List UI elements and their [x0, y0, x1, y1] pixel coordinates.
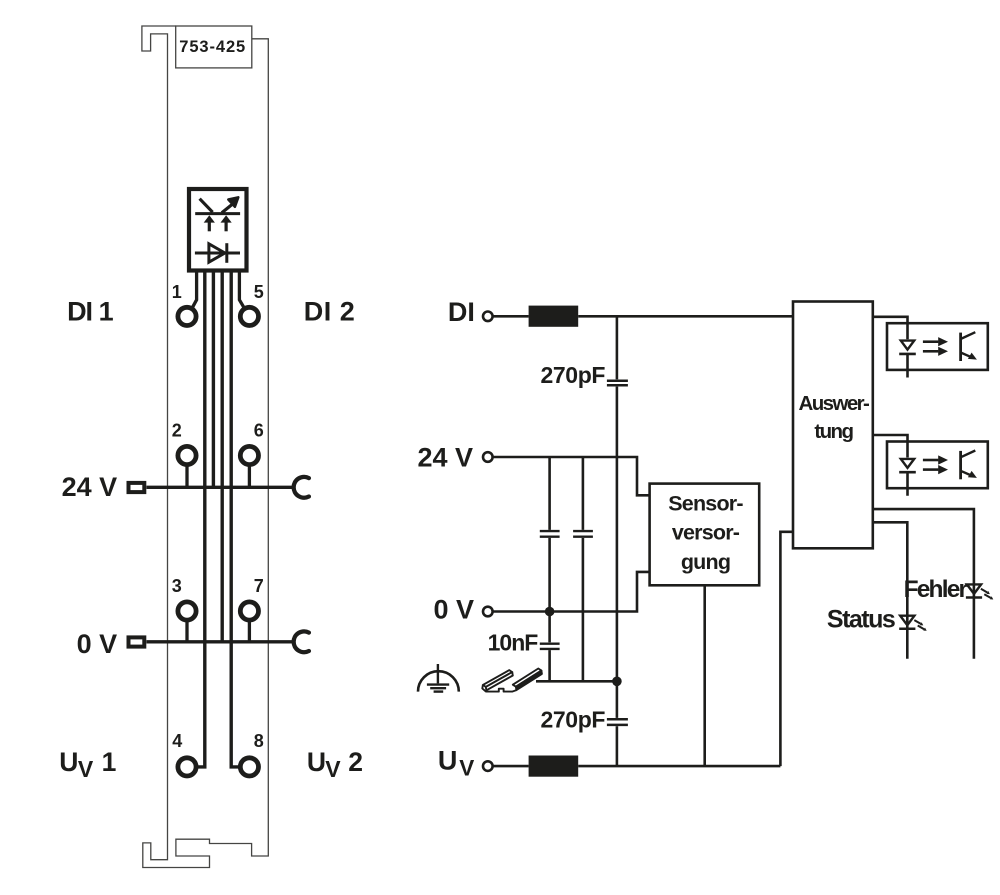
- svg-text:3: 3: [172, 576, 182, 596]
- bus wire to contact 4: [196, 271, 205, 767]
- LED Status light arrows: [914, 620, 924, 629]
- capacitor C2 plate 2: [540, 536, 560, 538]
- status indicator diagonal: [200, 199, 213, 213]
- wire 10nF to ground line: [548, 650, 551, 681]
- LED Fehler light arrows: [981, 589, 991, 598]
- opto 2 LED cathode bar: [899, 471, 916, 474]
- diode triangle: [209, 244, 225, 262]
- wire Auswertung to opto 2: [873, 435, 908, 442]
- pin wire to contact 5: [239, 271, 244, 308]
- wire ground node down to UV line: [616, 681, 619, 718]
- up arrow 1 shaft: [208, 221, 211, 232]
- opto 1 LED cathode bar: [899, 353, 916, 356]
- 24V rail wire: [147, 486, 294, 489]
- svg-text:270pF: 270pF: [541, 706, 606, 732]
- svg-text:versor-: versor-: [672, 521, 740, 545]
- LED Status triangle: [900, 616, 914, 626]
- contact circle 7: [240, 602, 258, 620]
- wire Sensor box down to UV line: [703, 585, 706, 766]
- terminal UV: [483, 761, 493, 771]
- earth symbol bar 2: [430, 687, 446, 689]
- stem contact 7: [248, 617, 251, 642]
- ground wire: [536, 680, 617, 683]
- svg-text:270pF: 270pF: [541, 362, 606, 388]
- svg-text:V: V: [78, 756, 94, 782]
- svg-text:DI: DI: [448, 297, 475, 327]
- svg-text:1: 1: [172, 282, 182, 302]
- wire DI to Auswertung: [578, 315, 793, 318]
- 0V rail wire: [147, 640, 294, 643]
- module outline 753-425 housing: [142, 26, 268, 868]
- 0V spring contact: [294, 631, 309, 652]
- label box: [176, 26, 252, 68]
- Auswertung box: [793, 302, 873, 549]
- wire 0V to Sensor corner: [494, 572, 650, 612]
- capacitor branch 1 upper wire: [548, 457, 551, 530]
- svg-text:Auswer-: Auswer-: [799, 392, 869, 415]
- contact circle 1: [178, 307, 196, 325]
- svg-text:DI 2: DI 2: [304, 297, 356, 327]
- status indicator arrow shaft: [222, 204, 233, 213]
- status indicator symbol bar: [195, 212, 240, 215]
- contact circle 3: [178, 602, 196, 620]
- svg-text:0 V: 0 V: [77, 629, 118, 659]
- svg-text:V: V: [459, 755, 474, 780]
- svg-text:753-425: 753-425: [179, 38, 246, 56]
- capacitor branch 2 upper wire: [582, 457, 585, 530]
- opto 2 light arrow 2: [923, 468, 939, 471]
- Sensorversorgung box: [650, 484, 760, 586]
- contact circle 5: [240, 307, 258, 325]
- wire C1 down to ground node: [616, 387, 619, 682]
- filter choke UV: [529, 756, 579, 777]
- terminal DI: [483, 312, 493, 322]
- capacitor 10nF plate 1: [540, 643, 560, 645]
- wire Status branch: [873, 522, 908, 658]
- stem contact 3: [185, 617, 188, 642]
- svg-text:Fehler: Fehler: [904, 576, 969, 603]
- wire UV line: [578, 765, 780, 768]
- svg-text:7: 7: [254, 576, 264, 596]
- optocoupler block U1: [189, 189, 247, 271]
- LED Fehler triangle: [967, 584, 981, 594]
- opto 1 light arrow 2: [923, 350, 939, 353]
- terminal 0V: [483, 607, 493, 617]
- bus wire to 0V rail: [220, 271, 223, 642]
- svg-text:1: 1: [102, 747, 117, 777]
- contact circle 6: [240, 446, 258, 464]
- capacitor C4 270pF plate 2: [607, 724, 628, 727]
- vertical wire DI filter node down: [616, 316, 619, 379]
- DIN rail symbol: [482, 669, 542, 692]
- capacitor branch 2 wire to ground line: [582, 538, 585, 681]
- svg-text:U: U: [59, 747, 78, 777]
- svg-text:Status: Status: [827, 605, 895, 633]
- svg-text:tung: tung: [814, 420, 853, 443]
- wire UV to filter: [494, 765, 529, 768]
- diode line: [195, 252, 240, 255]
- svg-text:U: U: [307, 747, 326, 777]
- wire DI to filter: [494, 315, 529, 318]
- capacitor branch 1 wire to 0V: [548, 538, 551, 611]
- capacitor C4 270pF plate 1: [607, 718, 628, 721]
- up arrow 1 head: [204, 215, 215, 222]
- svg-text:Sensor-: Sensor-: [668, 491, 743, 515]
- opto 1 LED triangle: [901, 341, 914, 350]
- svg-text:gung: gung: [681, 550, 730, 574]
- bus wire to contact 8: [231, 271, 240, 767]
- opto 2 light arrow 1: [923, 459, 939, 462]
- svg-text:V: V: [325, 756, 341, 782]
- wire Fehler branch: [873, 509, 974, 659]
- LED Fehler cathode bar: [966, 596, 982, 599]
- pin wire to contact 1: [192, 271, 197, 308]
- wire Auswertung left stub to UV line: [780, 532, 793, 766]
- opto 2 phototransistor collector: [961, 451, 976, 458]
- wire C4 to UV line: [616, 726, 619, 766]
- svg-text:4: 4: [172, 731, 182, 751]
- diode cathode bar: [225, 243, 228, 263]
- opto 1 LED wire: [906, 323, 909, 377]
- svg-text:10nF: 10nF: [488, 630, 539, 656]
- svg-text:6: 6: [254, 420, 264, 440]
- 24V spring contact: [294, 477, 309, 498]
- LED Status cathode bar: [899, 628, 915, 631]
- contact circle 2: [178, 446, 196, 464]
- opto 2 phototransistor emitter: [961, 471, 971, 475]
- svg-text:2: 2: [172, 420, 182, 440]
- svg-text:5: 5: [254, 282, 264, 302]
- opto 2 LED triangle: [901, 459, 914, 468]
- wire 0V node to 10nF: [548, 612, 551, 643]
- junction dot ground node: [612, 677, 622, 687]
- opto 2 phototransistor bar: [959, 451, 962, 479]
- capacitor C3 plate 1: [573, 530, 593, 532]
- earth symbol bar 1: [427, 683, 449, 685]
- opto 1 phototransistor emitter: [961, 353, 971, 357]
- svg-text:0 V: 0 V: [433, 595, 474, 625]
- optocoupler box 1: [887, 323, 988, 370]
- junction dot 0V branch: [545, 607, 555, 617]
- svg-text:24 V: 24 V: [417, 443, 473, 473]
- optocoupler box 2: [887, 442, 988, 489]
- svg-text:24 V: 24 V: [62, 472, 118, 502]
- wire 24V to corner: [494, 457, 650, 495]
- bus wire to 24V rail: [212, 271, 215, 487]
- opto 1 light arrow 1: [923, 340, 939, 343]
- wire Auswertung to opto 1: [873, 317, 908, 323]
- stem contact 6: [248, 461, 251, 487]
- earth symbol bar 3: [434, 690, 444, 692]
- up arrow 2 head: [221, 215, 232, 222]
- filter choke DI: [529, 306, 579, 327]
- 0V jumper square contact: [129, 637, 145, 646]
- capacitor C2 plate 1: [540, 530, 560, 532]
- stem contact 2: [185, 461, 188, 487]
- svg-text:U: U: [438, 745, 458, 775]
- capacitor C3 plate 2: [573, 536, 593, 538]
- capacitor 10nF plate 2: [540, 648, 560, 650]
- svg-text:8: 8: [254, 731, 264, 751]
- opto 2 LED wire: [906, 442, 909, 496]
- terminal 24V: [483, 452, 493, 462]
- contact circle 4: [178, 758, 196, 776]
- capacitor C1 270pF plate 1: [607, 379, 628, 382]
- opto 1 phototransistor bar: [959, 333, 962, 361]
- opto 1 phototransistor collector: [961, 332, 976, 339]
- 24V jumper square contact: [129, 483, 145, 492]
- earth symbol stem: [437, 664, 439, 683]
- earth symbol arc: [418, 671, 459, 691]
- up arrow 2 shaft: [225, 221, 228, 232]
- svg-text:2: 2: [348, 747, 363, 777]
- svg-text:DI 1: DI 1: [67, 297, 114, 327]
- status indicator arrow head: [228, 197, 238, 207]
- contact circle 8: [240, 758, 258, 776]
- capacitor C1 270pF plate 2: [607, 384, 628, 387]
